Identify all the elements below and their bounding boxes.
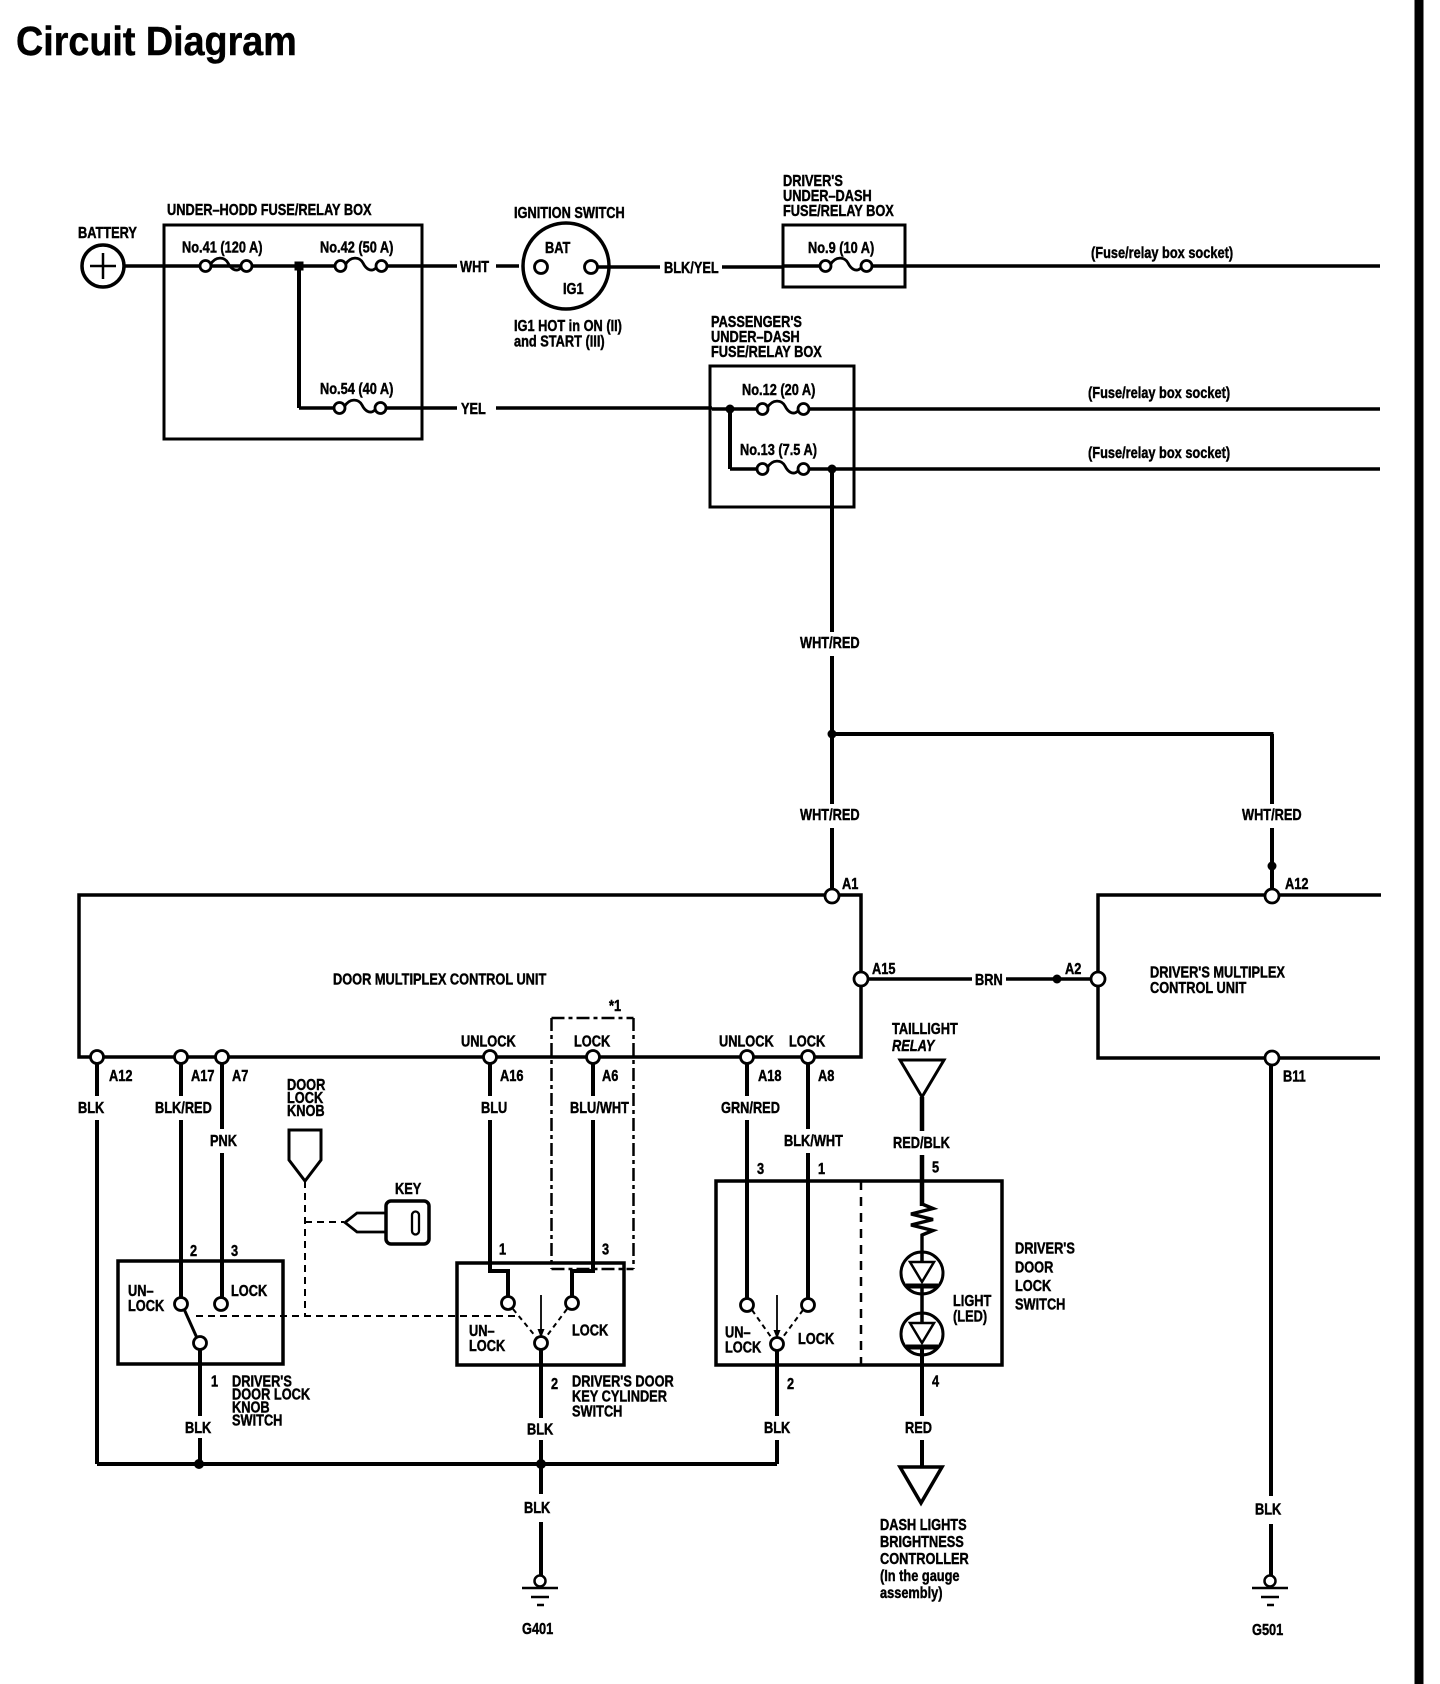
svg-text:DOOR MULTIPLEX CONTROL UNIT: DOOR MULTIPLEX CONTROL UNIT: [333, 971, 546, 989]
svg-text:A7: A7: [232, 1068, 248, 1086]
svg-text:1: 1: [211, 1373, 218, 1391]
svg-text:G401: G401: [522, 1621, 553, 1639]
svg-text:WHT/RED: WHT/RED: [800, 807, 860, 825]
svg-text:and START (III): and START (III): [514, 333, 605, 351]
svg-text:IGNITION SWITCH: IGNITION SWITCH: [514, 205, 625, 223]
svg-text:SWITCH: SWITCH: [232, 1412, 282, 1430]
svg-text:LOCK: LOCK: [725, 1339, 762, 1357]
svg-text:BRN: BRN: [975, 972, 1003, 990]
svg-text:FUSE/RELAY BOX: FUSE/RELAY BOX: [783, 203, 894, 221]
svg-text:YEL: YEL: [461, 401, 486, 419]
svg-text:LOCK: LOCK: [1015, 1278, 1052, 1296]
svg-text:DASH LIGHTS: DASH LIGHTS: [880, 1517, 967, 1535]
svg-text:BRIGHTNESS: BRIGHTNESS: [880, 1534, 964, 1552]
svg-text:A8: A8: [818, 1068, 834, 1086]
svg-text:LOCK: LOCK: [231, 1283, 268, 1301]
svg-text:*1: *1: [609, 998, 621, 1016]
svg-text:KEY: KEY: [395, 1181, 422, 1199]
svg-text:WHT: WHT: [460, 259, 489, 277]
svg-text:1: 1: [818, 1161, 825, 1179]
svg-text:LOCK: LOCK: [574, 1033, 611, 1051]
svg-text:RED/BLK: RED/BLK: [893, 1135, 950, 1153]
svg-text:No.9 (10 A): No.9 (10 A): [808, 240, 874, 258]
svg-text:(In the gauge: (In the gauge: [880, 1568, 960, 1586]
svg-text:5: 5: [932, 1159, 939, 1177]
svg-text:CONTROLLER: CONTROLLER: [880, 1551, 969, 1569]
svg-text:FUSE/RELAY BOX: FUSE/RELAY BOX: [711, 344, 822, 362]
svg-text:A15: A15: [872, 961, 895, 979]
svg-text:SWITCH: SWITCH: [1015, 1296, 1065, 1314]
svg-text:DRIVER'S: DRIVER'S: [1015, 1240, 1075, 1258]
svg-text:UNLOCK: UNLOCK: [719, 1033, 774, 1051]
svg-text:BLK/WHT: BLK/WHT: [784, 1133, 843, 1151]
svg-text:No.13 (7.5 A): No.13 (7.5 A): [740, 442, 817, 460]
svg-text:BLK: BLK: [1255, 1501, 1282, 1519]
svg-text:No.41 (120 A): No.41 (120 A): [182, 239, 263, 257]
svg-text:LOCK: LOCK: [572, 1322, 609, 1340]
svg-text:LOCK: LOCK: [469, 1338, 506, 1356]
svg-text:WHT/RED: WHT/RED: [1242, 807, 1302, 825]
svg-text:RELAY: RELAY: [892, 1038, 936, 1056]
svg-text:G501: G501: [1252, 1622, 1283, 1640]
svg-text:No.42 (50 A): No.42 (50 A): [320, 239, 394, 257]
svg-text:BLU: BLU: [481, 1100, 507, 1118]
svg-text:A6: A6: [602, 1068, 618, 1086]
svg-text:A12: A12: [109, 1068, 132, 1086]
svg-text:GRN/RED: GRN/RED: [721, 1100, 780, 1118]
svg-text:BLU/WHT: BLU/WHT: [570, 1100, 629, 1118]
svg-text:A1: A1: [842, 876, 858, 894]
svg-text:(LED): (LED): [953, 1308, 987, 1326]
svg-text:BLK: BLK: [527, 1421, 554, 1439]
svg-text:A17: A17: [191, 1068, 214, 1086]
svg-text:(Fuse/relay box socket): (Fuse/relay box socket): [1091, 245, 1233, 263]
svg-text:LOCK: LOCK: [798, 1331, 835, 1349]
svg-text:A18: A18: [758, 1068, 781, 1086]
svg-text:(Fuse/relay box socket): (Fuse/relay box socket): [1088, 385, 1230, 403]
svg-text:TAILLIGHT: TAILLIGHT: [892, 1021, 958, 1039]
svg-text:A2: A2: [1065, 961, 1081, 979]
svg-text:LOCK: LOCK: [128, 1298, 165, 1316]
svg-text:(Fuse/relay box socket): (Fuse/relay box socket): [1088, 445, 1230, 463]
svg-text:Circuit Diagram: Circuit Diagram: [16, 19, 297, 65]
svg-text:assembly): assembly): [880, 1585, 943, 1603]
svg-text:4: 4: [932, 1373, 939, 1391]
svg-text:PNK: PNK: [210, 1133, 237, 1151]
svg-text:No.12 (20 A): No.12 (20 A): [742, 382, 816, 400]
svg-text:UNDER–HODD FUSE/RELAY BOX: UNDER–HODD FUSE/RELAY BOX: [167, 202, 372, 220]
svg-text:1: 1: [499, 1241, 506, 1259]
svg-text:2: 2: [190, 1243, 197, 1261]
svg-text:A16: A16: [500, 1068, 523, 1086]
svg-text:BLK/RED: BLK/RED: [155, 1100, 212, 1118]
svg-text:3: 3: [602, 1241, 609, 1259]
svg-text:BLK: BLK: [78, 1100, 105, 1118]
svg-text:3: 3: [231, 1243, 238, 1261]
svg-text:BAT: BAT: [545, 240, 570, 258]
svg-text:KNOB: KNOB: [287, 1103, 325, 1121]
svg-text:BLK: BLK: [764, 1420, 791, 1438]
svg-text:B11: B11: [1283, 1068, 1306, 1086]
svg-text:BLK/YEL: BLK/YEL: [664, 260, 719, 278]
svg-text:WHT/RED: WHT/RED: [800, 635, 860, 653]
svg-text:CONTROL UNIT: CONTROL UNIT: [1150, 980, 1246, 998]
svg-text:DOOR: DOOR: [1015, 1259, 1054, 1277]
svg-text:SWITCH: SWITCH: [572, 1403, 622, 1421]
svg-text:UNLOCK: UNLOCK: [461, 1033, 516, 1051]
svg-text:2: 2: [551, 1376, 558, 1394]
svg-text:RED: RED: [905, 1420, 932, 1438]
svg-text:BLK: BLK: [524, 1500, 551, 1518]
svg-text:BATTERY: BATTERY: [78, 225, 137, 243]
svg-text:No.54 (40 A): No.54 (40 A): [320, 381, 394, 399]
svg-text:LOCK: LOCK: [789, 1033, 826, 1051]
svg-text:IG1: IG1: [563, 281, 584, 299]
svg-text:2: 2: [787, 1376, 794, 1394]
svg-text:3: 3: [757, 1161, 764, 1179]
svg-text:A12: A12: [1285, 876, 1308, 894]
svg-text:BLK: BLK: [185, 1420, 212, 1438]
